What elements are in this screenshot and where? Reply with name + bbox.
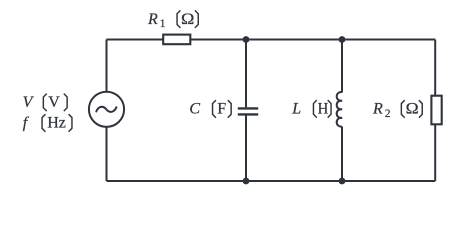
wire C branch lower xyxy=(245,115,247,181)
wire right xyxy=(434,40,436,182)
svg-text:Ω: Ω xyxy=(181,11,195,28)
svg-text:H: H xyxy=(318,101,329,118)
svg-text:V: V xyxy=(48,94,60,111)
node top L xyxy=(339,36,346,43)
svg-text:C: C xyxy=(189,101,200,118)
capacitor C xyxy=(238,108,258,114)
svg-text:R: R xyxy=(147,11,158,28)
resistor R2 xyxy=(431,96,441,125)
svg-text:Ω: Ω xyxy=(406,101,419,118)
svg-text:R: R xyxy=(372,101,383,118)
svg-text:f: f xyxy=(23,115,30,132)
label C [F] xyxy=(189,101,231,118)
label R2 xyxy=(372,101,422,120)
svg-text:L: L xyxy=(291,101,301,118)
inductor L xyxy=(337,92,342,127)
resistor R1 xyxy=(163,35,190,45)
label f [Hz] xyxy=(23,115,72,132)
node top C xyxy=(243,36,250,43)
label L [H] xyxy=(291,101,331,118)
label R1 xyxy=(147,11,198,30)
node bottom L xyxy=(339,178,346,185)
wire left lower xyxy=(106,127,108,181)
wire L branch upper xyxy=(341,40,343,93)
label V [V] xyxy=(23,94,68,111)
wire bottom xyxy=(107,180,436,182)
svg-text:2: 2 xyxy=(385,108,391,120)
wire C branch upper xyxy=(245,40,247,108)
svg-text:V: V xyxy=(23,94,35,111)
svg-text:F: F xyxy=(217,101,226,118)
source AC V xyxy=(89,92,124,127)
svg-text:1: 1 xyxy=(160,18,166,30)
wire L branch lower xyxy=(341,127,343,182)
wire left upper xyxy=(106,40,108,92)
svg-text:Hz: Hz xyxy=(47,115,66,132)
node bottom C xyxy=(243,178,250,185)
wire top xyxy=(107,39,436,41)
